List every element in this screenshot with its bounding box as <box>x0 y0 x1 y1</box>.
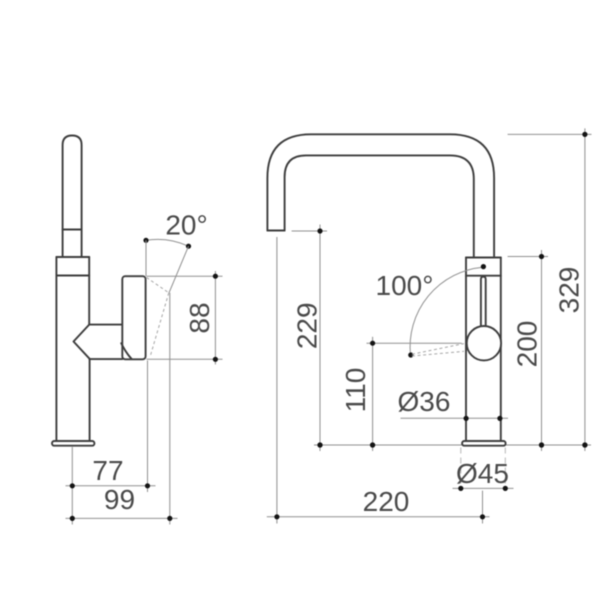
connector dia45 to 220 <box>482 491 484 524</box>
dim 110 top extension <box>367 342 462 344</box>
dim 99 line <box>66 517 178 519</box>
left view: aerator line on pipe <box>63 229 82 231</box>
dim 88 bottom dot <box>213 357 218 362</box>
dim 88 top dot <box>213 274 218 279</box>
dim 110 top dot <box>370 341 375 346</box>
label 100 deg <box>376 270 434 301</box>
left view: body right edge lower <box>89 359 91 441</box>
left view: body left edge <box>55 257 57 441</box>
right view: spout outer contour <box>267 134 494 257</box>
dim 329 top dot <box>582 132 587 137</box>
dim 200 bottom dot <box>539 442 544 447</box>
dim 229 top extension <box>292 230 327 232</box>
dia45 line <box>453 487 514 489</box>
left view: body right edge upper <box>88 257 90 325</box>
left view: extension from pivot <box>169 293 171 525</box>
label 88 <box>184 302 215 333</box>
label 229 <box>292 302 323 349</box>
label dia36 <box>398 386 451 417</box>
right view: body right edge <box>500 258 502 442</box>
dia45 right dot <box>503 486 508 491</box>
dim 229 top dot <box>317 228 322 233</box>
dim 229 bottom dot <box>317 442 322 447</box>
right view: lever slot <box>481 277 486 327</box>
dia36 right dot <box>497 416 502 421</box>
right view: outlet bottom edge <box>267 230 284 232</box>
right view: handle knob circle <box>467 326 501 360</box>
left view: collar bottom edge <box>56 275 89 277</box>
dim 99 right dot <box>167 516 172 521</box>
left view: centerline below base <box>71 447 73 525</box>
outlet extension to 220 <box>276 237 278 524</box>
dim 110 line <box>372 337 374 451</box>
dim 220 line <box>267 516 490 518</box>
dim 99 left dot <box>70 516 75 521</box>
left view: collar top edge <box>56 256 89 258</box>
left view: tilted handle edge solid slant <box>169 246 189 293</box>
svg-text:88: 88 <box>184 302 215 333</box>
left view: handle fillet line <box>121 343 131 359</box>
dim 329 top extension <box>508 133 592 135</box>
left view: extension from handle right edge <box>147 361 149 493</box>
dia45 left dot <box>458 486 463 491</box>
svg-text:20°: 20° <box>165 210 207 241</box>
dim 200 top dot <box>539 254 544 259</box>
left view: 20 deg arc <box>146 239 189 246</box>
dim 88 bottom extension <box>147 358 223 360</box>
dim 77 line <box>66 485 156 487</box>
left view: handle arm bottom edge <box>90 358 123 360</box>
svg-text:Ø45: Ø45 <box>456 458 509 489</box>
ground line <box>314 444 591 446</box>
right view: collar top edge <box>466 257 501 259</box>
left view: spout pipe <box>63 136 82 258</box>
dim 77 right dot <box>145 483 150 488</box>
left view: handle lever <box>122 276 145 359</box>
dim 329 bottom dot <box>582 442 587 447</box>
label dia45 <box>456 458 509 489</box>
svg-text:99: 99 <box>104 484 135 515</box>
dim 200 line <box>541 250 543 451</box>
ground dots <box>317 442 322 447</box>
dim 88 top extension <box>147 275 223 277</box>
right view: body left edge <box>465 258 467 442</box>
left view: tilted handle right edge dashed <box>150 293 169 356</box>
label 20 deg <box>165 210 207 241</box>
left view: spout outlet chevron <box>74 325 90 359</box>
label 110 <box>340 368 371 413</box>
right view: 100 deg arc <box>410 267 483 355</box>
dim 110 bottom dot <box>370 442 375 447</box>
dim 88 line <box>214 271 216 365</box>
svg-text:200: 200 <box>512 321 543 368</box>
svg-text:110: 110 <box>340 368 371 413</box>
dim 229 line <box>319 225 321 452</box>
right view: tilted lever dashed lower <box>412 351 464 356</box>
svg-text:100°: 100° <box>376 270 434 301</box>
right view: base plate <box>462 441 506 446</box>
label 220 <box>363 486 410 517</box>
left view: extension from arc start to handle corner <box>145 240 147 276</box>
right view: collar bottom edge <box>466 275 501 277</box>
left view: base plate <box>52 441 94 446</box>
dim 329 line <box>584 128 586 451</box>
dia36 left dot <box>464 416 469 421</box>
svg-text:229: 229 <box>292 302 323 349</box>
label 99 <box>104 484 135 515</box>
left view: tilted handle top edge dashed <box>147 278 169 293</box>
dim 220 right dot <box>480 514 485 519</box>
label 77 <box>92 455 123 486</box>
left view: handle arm top edge <box>89 324 122 326</box>
dia45 left extension <box>460 448 462 485</box>
left view: arc end dot <box>186 244 191 249</box>
dia36 leader line <box>401 417 509 419</box>
label 329 <box>554 267 585 314</box>
dim 77 left dot <box>70 483 75 488</box>
svg-text:329: 329 <box>554 267 585 314</box>
right view: tilted lever dashed upper <box>412 344 464 355</box>
svg-text:220: 220 <box>363 486 410 517</box>
left view: arc start dot <box>143 238 148 243</box>
right view: arc top dot <box>481 264 486 269</box>
svg-text:77: 77 <box>92 455 123 486</box>
dim 220 left dot <box>274 514 279 519</box>
svg-text:Ø36: Ø36 <box>398 386 451 417</box>
dim 200 top extension <box>508 256 548 258</box>
right view: arc end dot <box>408 352 413 357</box>
dia45 right extension <box>504 448 506 485</box>
label 200 <box>512 321 543 368</box>
right view: spout inner contour <box>285 155 474 257</box>
